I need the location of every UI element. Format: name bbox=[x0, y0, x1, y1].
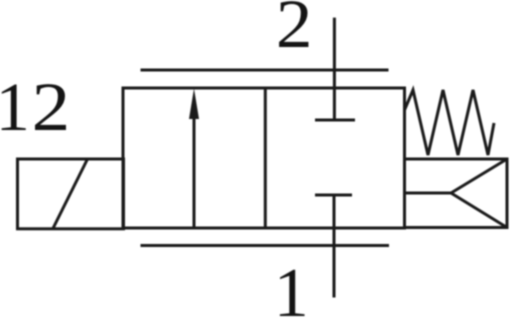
port 1 blocked symbol crossbar bbox=[315, 194, 352, 197]
svg-text:1: 1 bbox=[0, 69, 30, 145]
working line port 1 (lower horizontal line) bbox=[141, 244, 390, 247]
solenoid diagonal bbox=[53, 159, 88, 229]
port 2 stem bbox=[333, 18, 336, 120]
flow arrow stem (open position) bbox=[193, 100, 196, 228]
port 2 blocked symbol crossbar bbox=[315, 119, 355, 122]
svg-text:2: 2 bbox=[276, 0, 313, 62]
pilot triangle lower edge bbox=[451, 193, 507, 228]
valve body (two position squares) bbox=[123, 88, 405, 228]
port 1 stem bbox=[333, 195, 336, 298]
svg-text:2: 2 bbox=[32, 69, 71, 145]
pneumatic pilot box bbox=[405, 159, 508, 228]
solenoid coil box bbox=[18, 159, 124, 229]
return spring bbox=[405, 90, 495, 155]
svg-text:1: 1 bbox=[274, 255, 309, 318]
pilot line 12 (upper horizontal line) bbox=[141, 69, 389, 72]
pilot mid line bbox=[405, 192, 452, 195]
pilot triangle upper edge bbox=[451, 159, 507, 193]
position divider bbox=[264, 88, 267, 228]
flow arrow head bbox=[189, 89, 199, 120]
